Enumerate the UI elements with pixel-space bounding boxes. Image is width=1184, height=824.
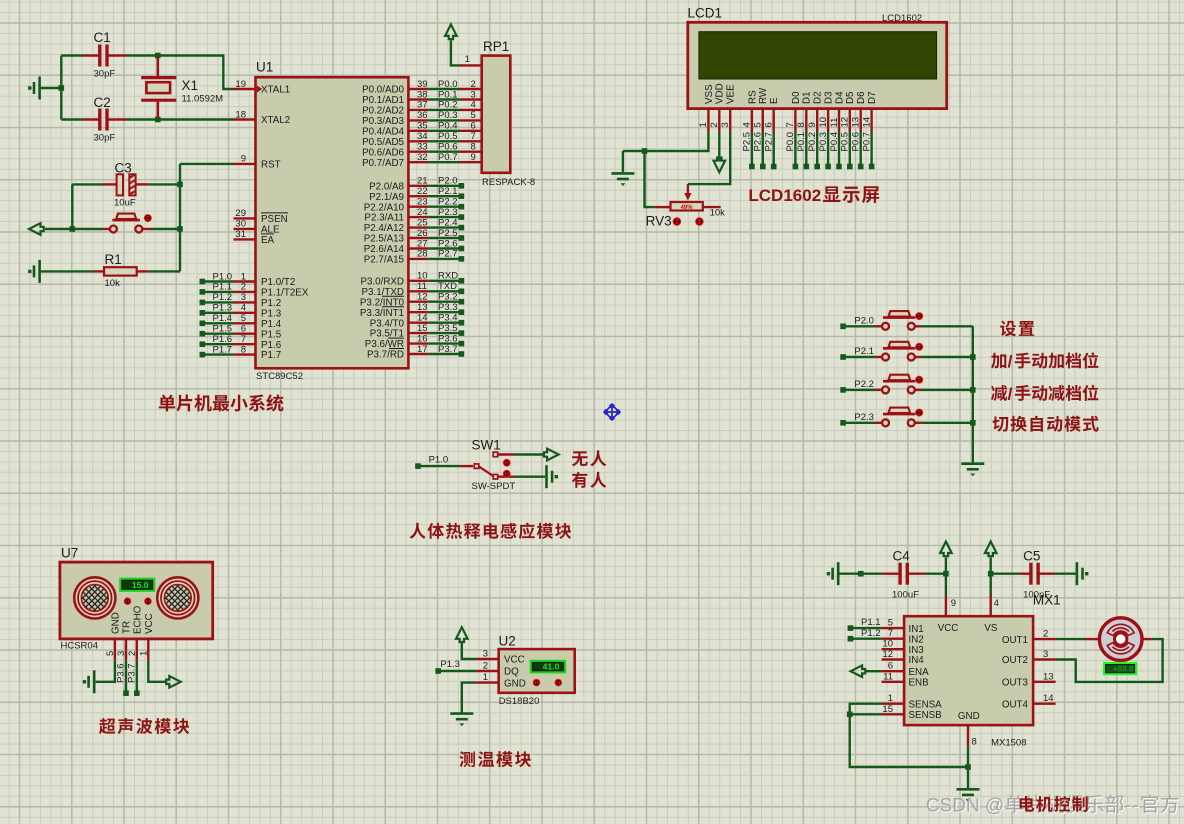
svg-text:IN1: IN1 <box>909 624 924 635</box>
svg-text:XTAL1: XTAL1 <box>261 85 290 96</box>
svg-text:U2: U2 <box>499 634 516 649</box>
switch SW1 SW-SPDT <box>415 438 515 492</box>
svg-text:24: 24 <box>417 207 428 218</box>
svg-text:4: 4 <box>994 598 999 609</box>
svg-text:P3.7/RD: P3.7/RD <box>367 350 404 361</box>
svg-text:P3.4: P3.4 <box>438 313 458 324</box>
ground (C4) <box>827 562 839 585</box>
svg-text:6: 6 <box>471 121 476 132</box>
power terminal VDD (down arrow) <box>714 132 726 173</box>
wire button P2.3 to bus <box>921 422 972 424</box>
svg-text:OUT3: OUT3 <box>1002 678 1029 689</box>
svg-text:P2.1/A9: P2.1/A9 <box>369 192 404 203</box>
svg-text:DQ: DQ <box>504 667 519 678</box>
svg-text:P1.5: P1.5 <box>261 329 282 340</box>
svg-text:P0.0/AD0: P0.0/AD0 <box>362 85 404 96</box>
svg-text:10k: 10k <box>105 278 121 289</box>
svg-text:5: 5 <box>471 110 476 121</box>
label 有人 <box>572 472 607 488</box>
svg-text:2: 2 <box>241 282 246 293</box>
svg-text:ECHO: ECHO <box>132 605 143 634</box>
svg-text:1: 1 <box>483 672 488 683</box>
wire button P2.2 to bus <box>921 389 972 391</box>
svg-text:13: 13 <box>1043 671 1054 682</box>
svg-text:31: 31 <box>235 229 246 240</box>
svg-text:VS: VS <box>984 623 998 634</box>
node P1.2 terminal <box>848 628 882 642</box>
svg-text:D7: D7 <box>867 91 878 104</box>
svg-text:4: 4 <box>471 100 476 111</box>
node LCD pin8 terminal P0.1 <box>796 132 809 170</box>
node crystal top <box>155 53 161 59</box>
node RST-C3 <box>177 182 183 188</box>
svg-text:P1.0/T2: P1.0/T2 <box>261 277 295 288</box>
label 超声波模块 <box>99 718 189 734</box>
svg-text:D2: D2 <box>813 91 824 104</box>
svg-text:P1.0: P1.0 <box>429 455 449 466</box>
svg-text:4: 4 <box>241 303 246 314</box>
capacitor C2 <box>61 95 126 143</box>
svg-text:D3: D3 <box>824 91 835 104</box>
power terminal (VS arrow) <box>985 542 997 574</box>
svg-text:P0.4: P0.4 <box>438 121 458 132</box>
svg-text:P2.3/A11: P2.3/A11 <box>364 213 404 224</box>
resistor pack RP1 RESPACK-8 <box>428 39 535 188</box>
node LCD pin13 terminal P0.6 <box>851 132 864 170</box>
svg-text:35: 35 <box>417 121 428 132</box>
actuator (U7 down) <box>124 597 132 605</box>
svg-text:CSDN @: CSDN @ <box>926 795 1004 816</box>
svg-text:1: 1 <box>138 651 149 656</box>
ultrasonic module U7 HCSR04 <box>49 546 224 652</box>
wire crystal top to U1 XTAL1 <box>158 56 234 90</box>
wire VSS junction to RV3 <box>645 151 655 207</box>
svg-text:21: 21 <box>417 176 428 187</box>
svg-text:17: 17 <box>417 344 428 355</box>
svg-text:P2.3: P2.3 <box>854 412 874 423</box>
push button P2.3 <box>840 408 921 427</box>
svg-text:7: 7 <box>785 122 796 127</box>
svg-text:14: 14 <box>861 117 872 128</box>
node button bus junction <box>970 354 976 360</box>
svg-text:C3: C3 <box>115 160 132 175</box>
wire GND to ground <box>967 746 969 788</box>
svg-text:8: 8 <box>796 122 807 127</box>
svg-text:P2.7: P2.7 <box>438 249 458 260</box>
svg-text:RESPACK-8: RESPACK-8 <box>482 177 535 188</box>
svg-text:VEE: VEE <box>726 84 737 104</box>
svg-text:P2.4/A12: P2.4/A12 <box>364 223 404 234</box>
svg-text:P0.4: P0.4 <box>829 132 840 152</box>
svg-text:2: 2 <box>709 122 720 127</box>
svg-text:P2.3: P2.3 <box>438 207 458 218</box>
svg-text:P1.2: P1.2 <box>261 298 281 309</box>
svg-text:7: 7 <box>471 131 476 142</box>
svg-text:2: 2 <box>1043 629 1048 640</box>
svg-text:C1: C1 <box>94 30 111 45</box>
svg-text:P2.5: P2.5 <box>438 228 458 239</box>
svg-text:ENA: ENA <box>909 667 930 678</box>
svg-text:RS: RS <box>747 90 758 104</box>
svg-text:P2.2/A10: P2.2/A10 <box>364 202 405 213</box>
svg-text:TXD: TXD <box>438 281 457 292</box>
svg-text:SW-SPDT: SW-SPDT <box>472 481 516 492</box>
pins U7 (GND TR ECHO VCC) <box>105 605 155 660</box>
svg-text:OUT2: OUT2 <box>1002 655 1028 666</box>
svg-text:P3.7: P3.7 <box>438 344 458 355</box>
svg-text:RW: RW <box>758 87 769 104</box>
svg-text:P1.4: P1.4 <box>261 319 282 330</box>
node button left <box>70 226 76 232</box>
svg-text:P3.6: P3.6 <box>438 333 458 344</box>
svg-text:GND: GND <box>111 612 122 634</box>
svg-text:41.0: 41.0 <box>543 662 560 672</box>
actuator (SW1 down) <box>503 470 511 478</box>
svg-text:D1: D1 <box>802 91 813 104</box>
node P1.1 terminal <box>848 617 882 631</box>
svg-text:30pF: 30pF <box>94 132 116 143</box>
svg-text:5: 5 <box>105 651 116 656</box>
svg-text:3: 3 <box>471 89 476 100</box>
svg-text:HCSR04: HCSR04 <box>61 641 99 652</box>
wire VSS to ground <box>623 132 709 152</box>
actuator (button P2.3) <box>915 409 923 417</box>
svg-text:P2.5/A13: P2.5/A13 <box>364 234 405 245</box>
svg-text:P0.7: P0.7 <box>438 152 458 163</box>
svg-text:6: 6 <box>241 324 246 335</box>
svg-text:P2.6/A14: P2.6/A14 <box>364 244 405 255</box>
svg-text:SENSB: SENSB <box>909 710 943 721</box>
node LCD pin9 terminal P0.2 <box>807 132 820 170</box>
svg-text:6: 6 <box>888 661 893 672</box>
svg-text:STC89C52: STC89C52 <box>256 371 303 382</box>
svg-text:VCC: VCC <box>938 623 959 634</box>
svg-text:P2.6: P2.6 <box>438 238 458 249</box>
svg-text:PSEN: PSEN <box>261 214 288 225</box>
node P1.3 terminal <box>435 659 476 674</box>
svg-text:U7: U7 <box>61 546 78 561</box>
svg-text:38: 38 <box>417 89 428 100</box>
svg-text:XTAL2: XTAL2 <box>261 115 290 126</box>
svg-text:10: 10 <box>417 271 428 282</box>
svg-text:C4: C4 <box>893 548 911 563</box>
node SENSB junction <box>847 712 853 718</box>
ground (SW1 有人) <box>514 465 558 488</box>
node P3.7 terminal <box>127 660 140 696</box>
svg-text:P1.2: P1.2 <box>213 292 233 303</box>
svg-text:D5: D5 <box>845 91 856 104</box>
push button P2.2 <box>840 375 921 394</box>
svg-text:-: - <box>1132 794 1139 816</box>
svg-text:7: 7 <box>241 334 246 345</box>
svg-text:RXD: RXD <box>438 271 458 282</box>
svg-text:P0.3/AD3: P0.3/AD3 <box>362 116 404 127</box>
svg-text:3: 3 <box>241 292 246 303</box>
svg-text:29: 29 <box>235 208 246 219</box>
node LCD pin14 terminal P0.7 <box>861 132 874 170</box>
svg-text:22: 22 <box>417 186 428 197</box>
push button (reset) <box>72 214 180 233</box>
capacitor C5 (100nF) <box>991 548 1077 600</box>
svg-text:P1.1/T2EX: P1.1/T2EX <box>261 288 309 299</box>
label MX1 <box>1033 593 1061 608</box>
svg-text:OUT4: OUT4 <box>1002 699 1029 710</box>
svg-text:11: 11 <box>883 671 893 682</box>
svg-text:VCC: VCC <box>144 613 155 634</box>
svg-text:/: / <box>1008 384 1013 403</box>
svg-text:34: 34 <box>417 131 428 142</box>
svg-text:5: 5 <box>888 618 893 629</box>
svg-text:E: E <box>769 97 780 104</box>
node P1.0-P1.7 terminals <box>200 271 234 357</box>
capacitor C1 <box>61 30 126 80</box>
node LCD pin6 terminal P2.7 <box>764 132 777 170</box>
label LCD1602显示屏 <box>748 186 879 205</box>
svg-text:RP1: RP1 <box>483 39 509 54</box>
label 减/手动减档位 <box>991 384 1098 403</box>
svg-text:P2.1: P2.1 <box>438 186 458 197</box>
ground (C5) <box>1077 562 1089 585</box>
svg-text:P0.1: P0.1 <box>438 89 458 100</box>
svg-text:P0.6: P0.6 <box>438 142 458 153</box>
svg-text:P0.6/AD6: P0.6/AD6 <box>362 147 404 158</box>
svg-text:VDD: VDD <box>715 83 726 104</box>
temperature sensor U2 DS18B20 <box>476 634 574 707</box>
svg-text:23: 23 <box>417 197 428 208</box>
wire OUT1 to motor <box>1056 638 1099 640</box>
svg-text:D4: D4 <box>834 91 845 104</box>
svg-text:P1.3: P1.3 <box>213 303 233 314</box>
svg-text:-: - <box>1125 794 1132 816</box>
svg-text:P1.6: P1.6 <box>213 334 233 345</box>
svg-text:26: 26 <box>417 228 428 239</box>
svg-text:ENB: ENB <box>909 678 930 689</box>
terminal arrow (ENA) <box>851 665 882 677</box>
svg-text:P1.1: P1.1 <box>213 282 233 293</box>
node RST-button <box>177 226 183 232</box>
svg-text:OUT1: OUT1 <box>1002 635 1028 646</box>
svg-text:VCC: VCC <box>504 655 525 666</box>
svg-text:P3.3: P3.3 <box>438 302 458 313</box>
svg-text:39: 39 <box>417 79 428 90</box>
svg-text:P3.3/INT1: P3.3/INT1 <box>360 308 404 319</box>
potentiometer RV3 10k <box>646 184 726 228</box>
svg-text:P2.1: P2.1 <box>854 346 874 357</box>
label 加/手动加档位 <box>991 352 1098 371</box>
origin marker <box>604 404 621 421</box>
wire OUT2 to motor <box>1056 639 1163 682</box>
wire crystal bottom to U1 XTAL2 <box>158 118 234 120</box>
svg-text:3: 3 <box>1043 649 1048 660</box>
svg-text:P0.5: P0.5 <box>840 132 851 152</box>
svg-text:7: 7 <box>888 628 893 639</box>
svg-text:P0.7/AD7: P0.7/AD7 <box>362 158 404 169</box>
svg-text:MX1508: MX1508 <box>991 737 1026 748</box>
svg-text:R1: R1 <box>105 252 122 267</box>
crystal X1 <box>141 57 223 118</box>
svg-text:P2.0/A8: P2.0/A8 <box>369 181 404 192</box>
svg-text:8: 8 <box>471 142 476 153</box>
actuator (reset button) <box>144 214 152 222</box>
node VS junction <box>988 571 994 577</box>
power terminal (U7 VCC) <box>148 660 181 687</box>
svg-text:P3.6: P3.6 <box>116 663 127 683</box>
svg-text:1: 1 <box>698 122 709 127</box>
wire SENSA/SENSB loop <box>850 704 968 767</box>
svg-text:18: 18 <box>235 109 246 120</box>
svg-text:12: 12 <box>882 649 893 660</box>
svg-text:8: 8 <box>972 737 977 748</box>
svg-text:10k: 10k <box>710 208 726 219</box>
svg-text:P2.7: P2.7 <box>764 132 775 152</box>
svg-text:10: 10 <box>818 117 829 128</box>
label 设置 <box>1000 321 1034 337</box>
svg-text:RST: RST <box>261 160 281 171</box>
svg-text:P0.2: P0.2 <box>438 100 458 111</box>
svg-text:P1.6: P1.6 <box>261 340 282 351</box>
svg-text:P0.1: P0.1 <box>796 132 807 152</box>
svg-text:28: 28 <box>417 249 428 260</box>
ground (U2) <box>450 683 476 727</box>
svg-text:6: 6 <box>764 122 775 127</box>
svg-text:LCD1602: LCD1602 <box>882 13 922 24</box>
svg-text:9: 9 <box>471 152 476 163</box>
svg-text:15: 15 <box>417 323 428 334</box>
svg-text:U1: U1 <box>256 60 273 75</box>
svg-text:3: 3 <box>116 651 127 656</box>
actuator (U2 down) <box>533 679 541 687</box>
ground (LCD VSS) <box>611 151 634 186</box>
svg-text:P0.6: P0.6 <box>851 132 862 152</box>
svg-text:P2.2: P2.2 <box>438 197 458 208</box>
actuator (RV3 right) <box>695 217 704 226</box>
push button P2.0 <box>840 311 921 330</box>
svg-text:30pF: 30pF <box>94 69 116 80</box>
svg-text:DS18B20: DS18B20 <box>499 696 540 707</box>
svg-text:5: 5 <box>241 313 246 324</box>
svg-text:3: 3 <box>720 122 731 127</box>
wire C2 to XTAL2 <box>126 118 158 120</box>
svg-text:P1.7: P1.7 <box>213 344 233 355</box>
power terminal (RP1) <box>445 24 460 65</box>
ground (MX1508) <box>957 789 980 802</box>
svg-text:100uF: 100uF <box>892 590 919 601</box>
node P3.6 terminal <box>116 660 129 696</box>
svg-text:GND: GND <box>504 678 526 689</box>
svg-text:37: 37 <box>417 100 428 111</box>
svg-text:P0.1/AD1: P0.1/AD1 <box>362 95 404 106</box>
capacitor C3 (10uF) <box>72 160 180 208</box>
svg-text:LCD1: LCD1 <box>688 6 723 21</box>
svg-text:IN2: IN2 <box>909 634 924 645</box>
svg-text:P2.6: P2.6 <box>753 132 764 152</box>
svg-text:25: 25 <box>417 217 428 228</box>
svg-text:10uF: 10uF <box>114 197 136 208</box>
svg-text:P0.5: P0.5 <box>438 131 458 142</box>
wire button P2.1 to bus <box>921 356 972 358</box>
watermark CSDN <box>926 794 1180 817</box>
svg-text:1: 1 <box>241 271 246 282</box>
svg-text:IN4: IN4 <box>909 655 925 666</box>
svg-text:P1.1: P1.1 <box>861 617 881 628</box>
svg-text:27: 27 <box>417 238 428 249</box>
svg-text:D6: D6 <box>856 91 867 104</box>
power terminal (U2 VCC) <box>456 627 476 659</box>
svg-text:P2.0: P2.0 <box>438 176 458 187</box>
resistor R1 (10k) <box>40 252 180 289</box>
svg-text:4: 4 <box>742 122 753 127</box>
actuator (button P2.1) <box>915 343 923 351</box>
svg-text:16: 16 <box>417 333 428 344</box>
svg-text:+88.8: +88.8 <box>1113 665 1134 674</box>
svg-text:D0: D0 <box>791 91 802 104</box>
actuator (U2 up) <box>555 679 563 687</box>
svg-text:2: 2 <box>471 79 476 90</box>
svg-text:P3.5: P3.5 <box>438 323 458 334</box>
label 切换自动模式 <box>992 416 1098 432</box>
svg-text:33: 33 <box>417 142 428 153</box>
svg-text:P1.7: P1.7 <box>261 350 281 361</box>
motor driver MX1508 <box>882 574 1056 725</box>
svg-text:P0.0: P0.0 <box>785 132 796 152</box>
node GND junction <box>965 764 971 770</box>
svg-text:11.0592M: 11.0592M <box>182 94 224 105</box>
node P2.0-P2.7 / P3 terminals <box>428 176 464 357</box>
power terminal (VCC arrow) <box>940 542 952 574</box>
svg-text:P0.4/AD4: P0.4/AD4 <box>362 126 404 137</box>
svg-text:13: 13 <box>417 302 428 313</box>
ground (buttons) <box>961 464 984 477</box>
svg-text:36: 36 <box>417 110 428 121</box>
ground (U7) <box>83 660 115 693</box>
svg-text:11: 11 <box>829 118 840 128</box>
node LCD pin11 terminal P0.4 <box>829 132 842 170</box>
svg-text:P2.2: P2.2 <box>854 379 874 390</box>
node LCD pin12 terminal P0.5 <box>840 132 853 170</box>
label 测温模块 <box>459 751 531 767</box>
lcd display LCD1 LCD1602 <box>688 6 947 132</box>
svg-text:2: 2 <box>127 651 138 656</box>
svg-text:P2.0: P2.0 <box>854 315 874 326</box>
svg-text:P1.3: P1.3 <box>261 308 282 319</box>
node LCD pin4 terminal P2.5 <box>742 132 755 170</box>
svg-text:14: 14 <box>1043 693 1054 704</box>
svg-text:SENSA: SENSA <box>909 699 943 710</box>
svg-text:C5: C5 <box>1023 548 1040 563</box>
svg-text:1: 1 <box>888 693 893 704</box>
svg-text:P0.5/AD5: P0.5/AD5 <box>362 137 404 148</box>
svg-text:P2.5: P2.5 <box>742 132 753 152</box>
svg-text:P0.7: P0.7 <box>861 132 872 152</box>
svg-text:P2.4: P2.4 <box>438 217 458 228</box>
svg-text:X1: X1 <box>182 78 199 93</box>
svg-text:P3.4/T0: P3.4/T0 <box>370 318 405 329</box>
actuator (U7 up) <box>144 597 152 605</box>
svg-text:P0.2: P0.2 <box>807 132 818 152</box>
svg-text:14: 14 <box>417 313 428 324</box>
capacitor C4 (100uF) <box>838 548 925 600</box>
svg-text:VSS: VSS <box>704 84 715 104</box>
svg-text:P0.2/AD2: P0.2/AD2 <box>362 106 404 117</box>
op-amp U1 microcontroller STC89C52 <box>234 60 429 383</box>
svg-text:P0.3: P0.3 <box>438 110 458 121</box>
svg-text:12: 12 <box>840 117 851 128</box>
label 单片机最小系统 <box>159 394 284 411</box>
svg-text:49%: 49% <box>681 205 694 211</box>
wire C1 to XTAL1 <box>126 54 158 56</box>
label 无人 <box>572 450 607 466</box>
wire C1/C2 left branch <box>60 56 62 120</box>
